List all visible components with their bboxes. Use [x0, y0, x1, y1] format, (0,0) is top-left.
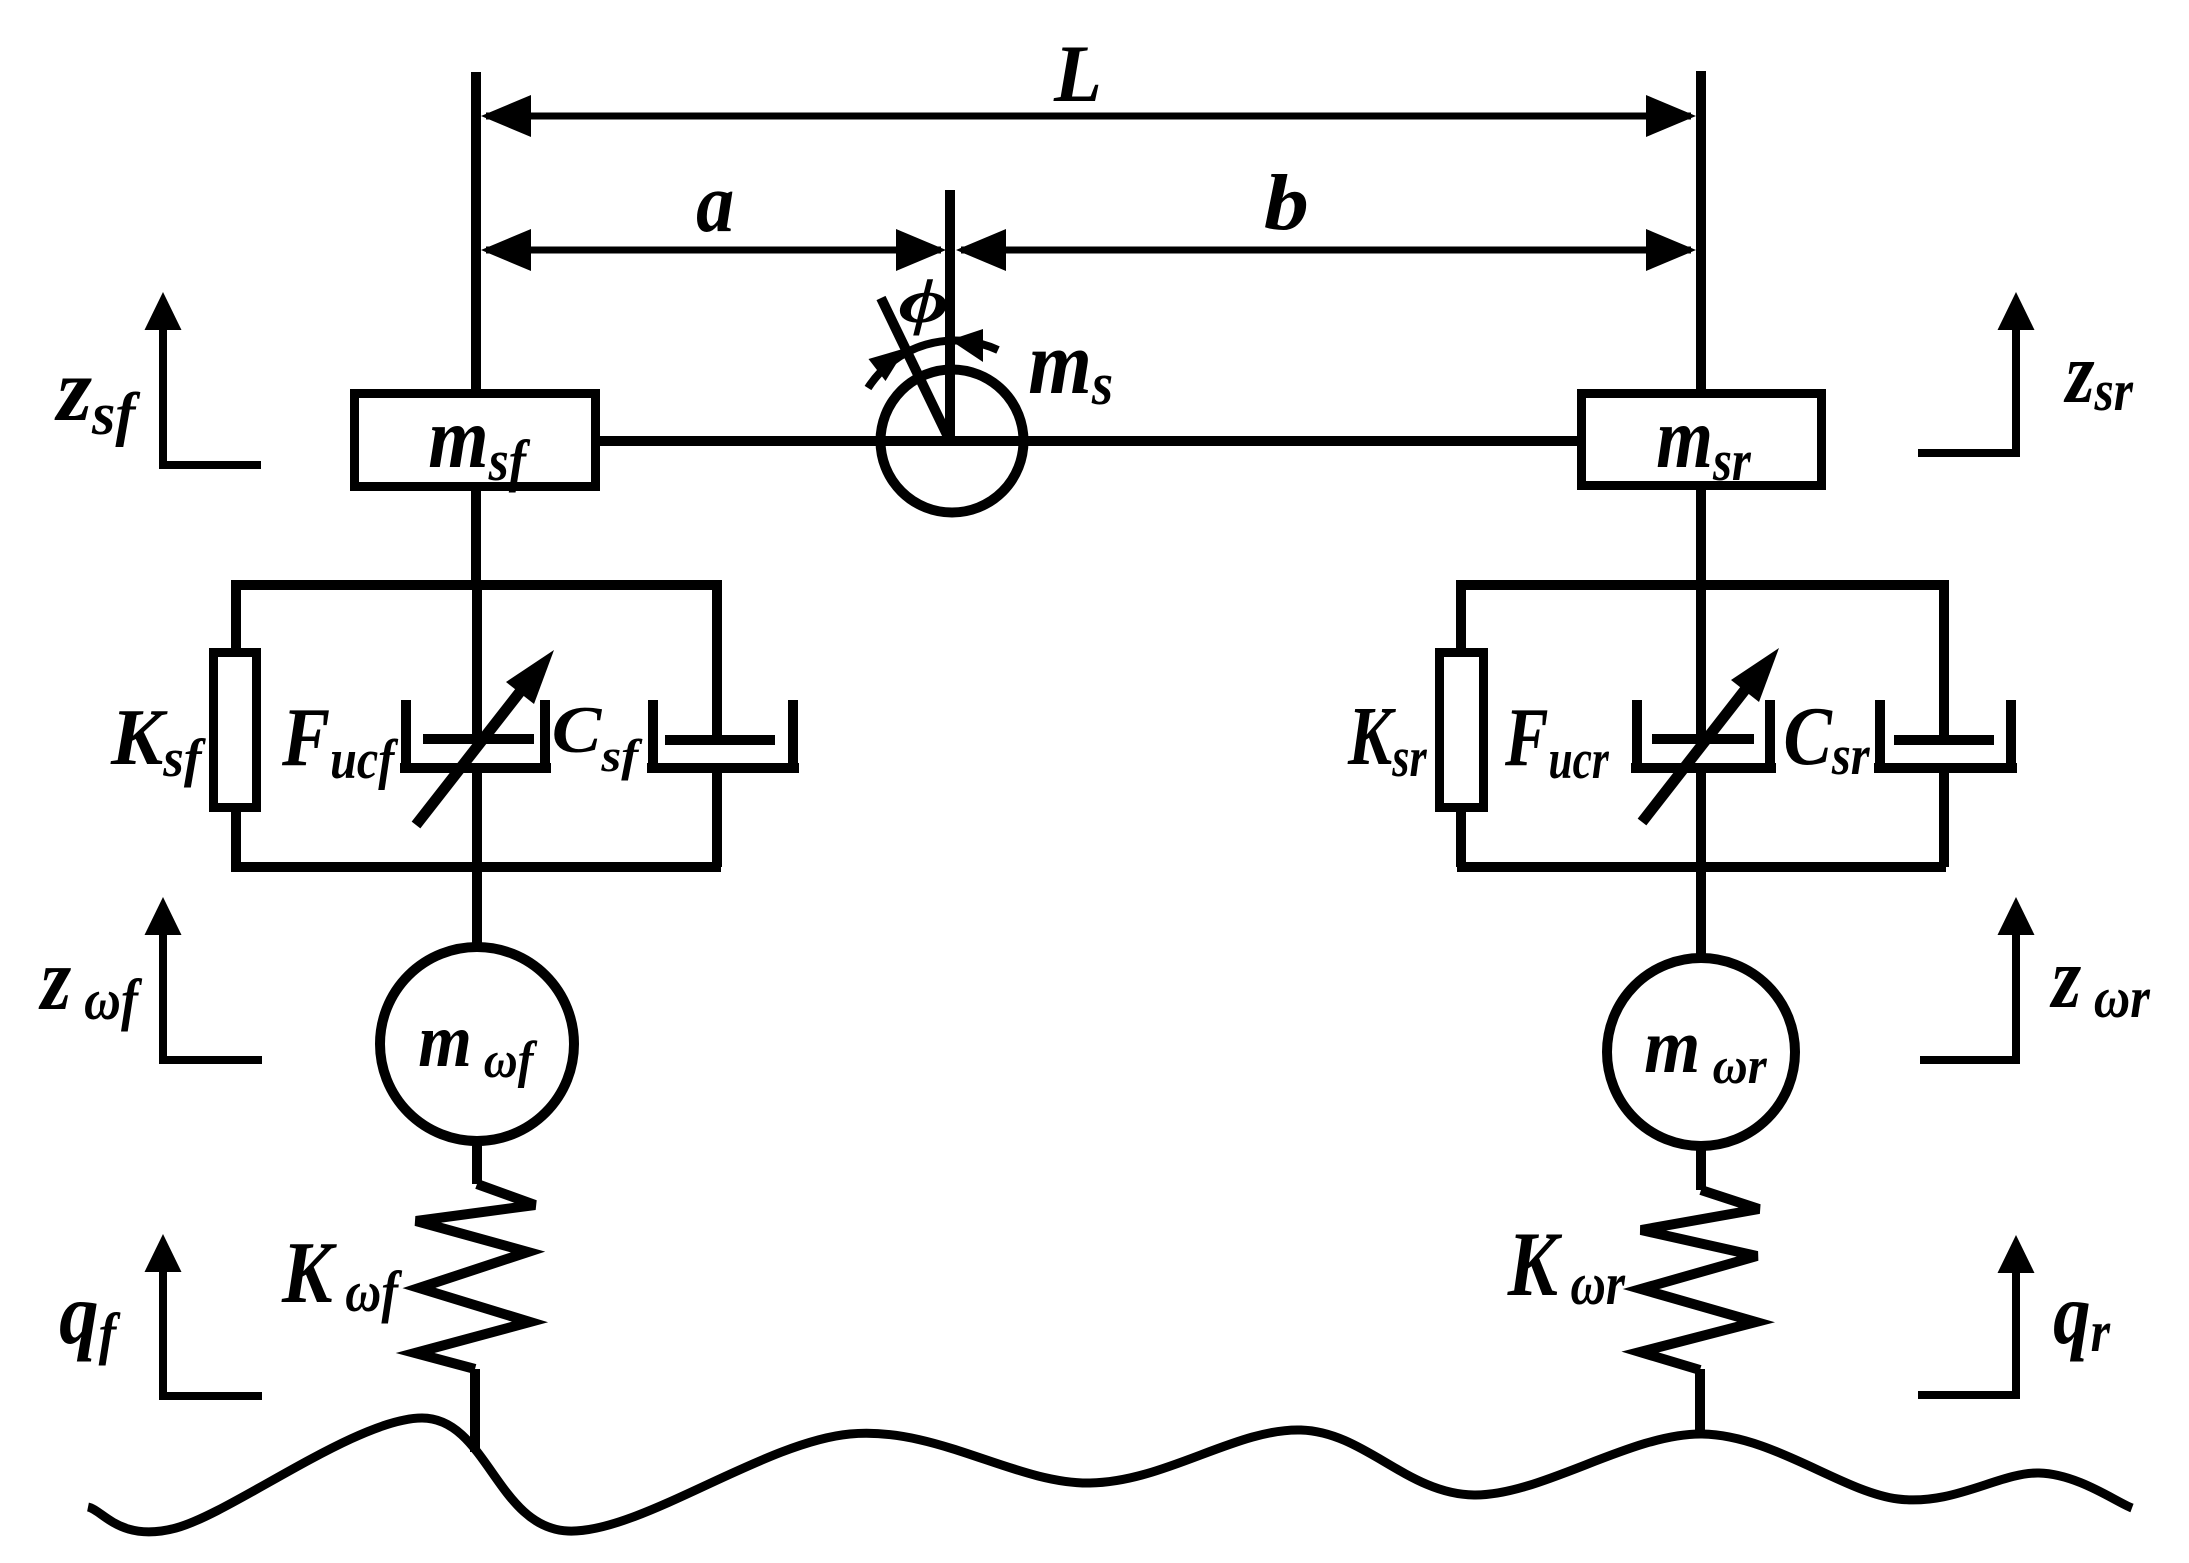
wire: front spring branch upper — [231, 580, 241, 652]
tire spring K_wr — [1640, 1190, 1759, 1370]
axis arrow q_r — [1918, 1235, 2035, 1395]
label F_ucr — [1504, 691, 1609, 790]
wire: tire spring front to ground — [470, 1369, 480, 1452]
label K_sf — [110, 693, 207, 788]
wire: rear actuator rod lower — [1696, 768, 1706, 872]
axis arrow z_sr — [1918, 292, 2035, 453]
wheel mass m_wf circle — [380, 947, 574, 1141]
label m_sf — [428, 390, 530, 493]
wire: left reference strut above m_sf — [471, 72, 481, 392]
label K_sr — [1347, 691, 1427, 788]
axis arrow z_sf — [145, 292, 262, 465]
wire: front suspension top rail — [231, 580, 721, 590]
spring K_sf — [214, 653, 257, 808]
dimension L line — [481, 95, 1696, 137]
actuator F_ucf piston — [423, 734, 534, 744]
wire: front suspension bottom rail — [231, 862, 721, 872]
actuator F_ucf cup — [400, 700, 551, 768]
wire: front damper rod lower — [712, 768, 722, 867]
dimension b line — [956, 229, 1696, 271]
label phi — [899, 266, 950, 336]
label m_sr — [1656, 390, 1752, 493]
axis arrow q_f — [145, 1234, 263, 1396]
wire: front actuator rod lower — [472, 768, 482, 872]
actuator F_ucf variable arrow — [416, 650, 554, 825]
label m_wr — [1644, 1004, 1767, 1094]
actuator F_ucr piston — [1652, 734, 1754, 744]
svg-text:b: b — [1264, 160, 1309, 247]
damper C_sf piston — [665, 735, 775, 745]
wire: rear spring branch lower — [1456, 808, 1466, 867]
label b — [1264, 160, 1309, 247]
wire: rear spring branch upper — [1456, 580, 1466, 652]
wire: m_sf to front suspension block — [471, 487, 481, 590]
label q_f — [59, 1266, 121, 1366]
label z_sr — [2063, 326, 2134, 423]
ground road profile — [88, 1418, 2132, 1532]
label K_wf — [281, 1224, 403, 1324]
body mass m_s circle — [881, 370, 1024, 513]
axis arrow z_wr — [1920, 897, 2035, 1060]
label L — [1053, 28, 1102, 119]
svg-text:a: a — [696, 156, 734, 250]
wire: rear damper rod lower — [1939, 768, 1949, 867]
wire: front spring branch lower — [231, 808, 241, 867]
label q_r — [2053, 1266, 2111, 1364]
actuator F_ucr variable arrow — [1642, 648, 1779, 822]
label z_wf — [38, 930, 142, 1031]
tire spring K_wf — [415, 1184, 535, 1369]
label m_s — [1028, 312, 1113, 417]
dimension a line — [481, 229, 946, 271]
label a — [696, 156, 734, 250]
wire: rear block to wheel — [1696, 862, 1706, 960]
wire: front actuator rod upper — [472, 580, 482, 742]
pitch angle arc phi — [868, 329, 998, 388]
wire: front damper rod upper — [712, 580, 722, 742]
label m_wf — [418, 998, 537, 1089]
axis arrow z_wf — [145, 897, 263, 1060]
damper C_sr piston — [1894, 735, 1994, 745]
actuator F_ucr cup — [1631, 700, 1776, 768]
wire: wheel to tire spring front — [472, 1140, 482, 1184]
wire: rear suspension top rail — [1457, 580, 1946, 590]
damper C_sf cup — [647, 700, 799, 768]
wire: sprung beam msf to msr — [598, 436, 1579, 446]
rear sprung mass m_sr box — [1582, 394, 1822, 486]
spring K_sr — [1440, 653, 1484, 808]
damper C_sr cup — [1874, 700, 2017, 768]
wire: right reference strut above m_sr — [1696, 71, 1706, 392]
label K_wr — [1507, 1214, 1626, 1317]
label F_ucf — [281, 690, 398, 791]
label C_sr — [1783, 689, 1870, 787]
wire: tire spring rear to ground — [1695, 1369, 1705, 1438]
wire: centre vertical axis above m_s — [945, 190, 955, 443]
wire: wheel to tire spring rear — [1696, 1144, 1706, 1190]
svg-text:ϕ: ϕ — [899, 266, 950, 336]
wire: rear suspension bottom rail — [1457, 862, 1946, 872]
label C_sf — [552, 693, 644, 781]
wire: rear actuator rod upper — [1696, 580, 1706, 742]
wire: front block to wheel — [472, 862, 482, 948]
svg-text:L: L — [1053, 28, 1102, 119]
wire: m_sr to rear suspension block — [1696, 486, 1706, 590]
wheel mass m_wr circle — [1607, 958, 1795, 1146]
wire: rear damper rod upper — [1939, 580, 1949, 742]
pitch axis tilted line — [881, 298, 950, 441]
front sprung mass m_sf box — [355, 394, 596, 487]
label z_wr — [2049, 929, 2151, 1030]
label z_sf — [54, 341, 140, 447]
